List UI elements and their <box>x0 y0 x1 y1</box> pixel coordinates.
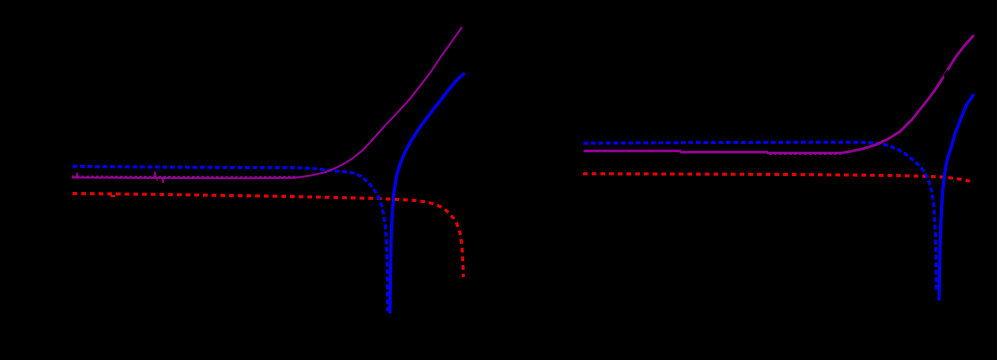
left panel magenta dashed overlay <box>72 175 298 178</box>
left panel blue solid curve <box>390 73 465 314</box>
right panel blue dashed curve <box>583 142 936 291</box>
left panel magenta solid curve <box>72 27 462 178</box>
left panel magenta line gap artifact <box>391 110 395 115</box>
left panel blue dashed curve <box>73 166 388 311</box>
right panel magenta line gap artifact <box>944 71 948 77</box>
left panel magenta noise spikes <box>76 173 164 183</box>
right panel red dashed curve <box>583 174 973 183</box>
right panel magenta solid curve <box>584 35 974 153</box>
right panel blue solid curve <box>939 94 974 301</box>
left panel red dash glitch <box>111 195 116 198</box>
left panel red dashed curve <box>73 194 464 278</box>
right panel magenta dashed under-bumps <box>769 153 841 155</box>
